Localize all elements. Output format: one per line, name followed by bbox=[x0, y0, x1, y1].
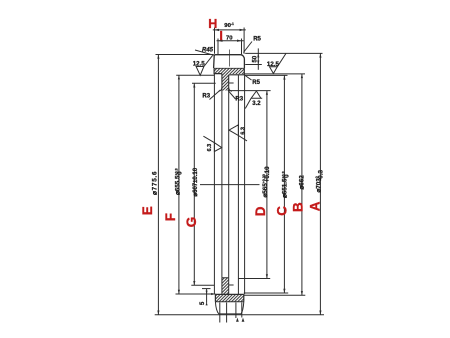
svg-text:50: 50 bbox=[252, 55, 258, 62]
dim 50 vertical bbox=[257, 48, 259, 69]
dim H ext right bbox=[243, 28, 245, 54]
svg-text:R3: R3 bbox=[202, 93, 210, 99]
svg-text:3.2: 3.2 bbox=[252, 101, 261, 107]
svg-text:R5: R5 bbox=[252, 80, 260, 86]
leader R3 left bbox=[210, 90, 221, 100]
svg-text:D: D bbox=[253, 206, 268, 216]
5 dim arrows bbox=[206, 291, 208, 295]
dim D bottom tick bbox=[238, 278, 270, 280]
H arrows bbox=[215, 29, 220, 31]
symbol 12.5 left triangle bbox=[196, 55, 213, 75]
svg-text:6.3: 6.3 bbox=[207, 144, 213, 152]
bottom bulb bbox=[215, 302, 243, 314]
tiny bottom arrows bbox=[236, 318, 239, 322]
dim B bottom tick bbox=[244, 294, 305, 296]
dim B top tick bbox=[245, 73, 306, 75]
dim D top tick bbox=[229, 90, 271, 92]
dim E bottom line bbox=[155, 314, 324, 316]
stem top edges bbox=[221, 74, 223, 91]
leader R3 right bbox=[228, 90, 236, 99]
svg-text:70: 70 bbox=[226, 35, 233, 41]
svg-text:12.5: 12.5 bbox=[193, 61, 206, 68]
dim I ext left bbox=[217, 39, 219, 55]
arrowheads bbox=[157, 29, 321, 322]
bottom stem piece hatched bbox=[222, 278, 229, 295]
dim H line bbox=[213, 29, 246, 31]
dim D vertical bbox=[266, 91, 268, 279]
svg-text:6.3: 6.3 bbox=[240, 127, 246, 135]
G arrows bbox=[193, 83, 195, 87]
svg-text:⌀565+0.30+0.10: ⌀565+0.30+0.10 bbox=[262, 166, 271, 198]
dim E vertical bbox=[157, 55, 159, 315]
symbol 12.5 right triangle bbox=[270, 53, 287, 73]
below-part extension lines bbox=[219, 303, 221, 323]
bottom stem tick bbox=[229, 284, 234, 286]
dim G vertical bbox=[193, 83, 195, 285]
symbol 3.2 bbox=[245, 91, 262, 109]
F bottom right arrow bbox=[211, 293, 215, 295]
svg-text:E: E bbox=[140, 206, 155, 215]
svg-text:⌀7030-0.3: ⌀7030-0.3 bbox=[315, 169, 324, 192]
dim F top tick bbox=[176, 74, 214, 76]
mid vertical L4 bbox=[237, 75, 239, 294]
I arrows bbox=[218, 40, 223, 42]
dim B vertical bbox=[301, 74, 303, 295]
bottom flange hatched bbox=[215, 294, 243, 301]
svg-text:90-1: 90-1 bbox=[224, 22, 234, 29]
dim 5 vertical bbox=[206, 289, 208, 303]
dim A top tick bbox=[245, 52, 322, 54]
C arrows bbox=[283, 75, 285, 79]
svg-text:A: A bbox=[308, 201, 323, 211]
leader R45 bbox=[195, 50, 214, 55]
svg-text:5: 5 bbox=[200, 301, 206, 305]
band outline bbox=[214, 68, 244, 75]
E arrows bbox=[157, 55, 159, 59]
leader R5 right bbox=[245, 75, 252, 80]
svg-text:C: C bbox=[275, 206, 290, 216]
dim G bottom line bbox=[191, 284, 214, 286]
svg-text:I: I bbox=[219, 29, 222, 43]
B arrows bbox=[301, 74, 303, 78]
dim C vertical bbox=[283, 75, 285, 293]
dim C top tick bbox=[245, 74, 288, 76]
D arrows bbox=[266, 91, 268, 95]
mid vertical L3 bbox=[228, 91, 230, 278]
svg-text:⌀607±0.10: ⌀607±0.10 bbox=[193, 167, 199, 196]
svg-text:⌀655.5+0.30: ⌀655.5+0.30 bbox=[174, 168, 183, 195]
dim I ext right bbox=[241, 39, 243, 55]
dim F bottom line bbox=[176, 293, 216, 295]
bottom flange outline bbox=[215, 294, 243, 301]
part head top surface bbox=[214, 55, 245, 68]
svg-text:R5: R5 bbox=[253, 37, 261, 43]
svg-text:G: G bbox=[184, 217, 199, 228]
symbol 6.3 no2 triangle bbox=[229, 125, 247, 141]
svg-text:⌀662: ⌀662 bbox=[298, 175, 305, 190]
svg-text:R45: R45 bbox=[202, 48, 214, 54]
centerline tick top bbox=[228, 50, 230, 67]
svg-text:B: B bbox=[291, 202, 306, 212]
svg-text:H: H bbox=[208, 17, 217, 31]
svg-text:R3: R3 bbox=[235, 96, 243, 102]
dim F vertical bbox=[178, 75, 180, 294]
svg-text:12.5: 12.5 bbox=[267, 61, 280, 68]
symbol 6.3 no1 triangle bbox=[203, 136, 221, 151]
dim A vertical bbox=[319, 53, 321, 314]
top flange hatch band bbox=[214, 68, 244, 74]
mid vertical L1 bbox=[213, 74, 215, 294]
mid horizontal line bbox=[200, 184, 260, 186]
dim I line bbox=[217, 40, 244, 42]
leader R5 top bbox=[243, 42, 252, 53]
dim G top tick bbox=[192, 82, 216, 84]
dim H ext left bbox=[214, 28, 216, 54]
F arrows bbox=[178, 75, 180, 79]
stem fillets bbox=[219, 88, 232, 92]
dim 5 crossbar bbox=[202, 288, 211, 290]
dim C bottom tick bbox=[244, 292, 288, 294]
A arrows bbox=[319, 53, 321, 57]
band top boundary bbox=[214, 67, 244, 69]
svg-text:⌀775.6: ⌀775.6 bbox=[152, 171, 159, 195]
stem top piece hatched bbox=[222, 74, 229, 91]
bottom stem outline bbox=[222, 278, 229, 295]
svg-text:F: F bbox=[163, 213, 178, 221]
dim E top tick bbox=[156, 54, 214, 56]
50 arrows bbox=[257, 53, 259, 57]
mid vertical L5 bbox=[244, 75, 246, 294]
mid vertical L2 bbox=[221, 91, 223, 278]
svg-text:⌀651.5+0.30: ⌀651.5+0.30 bbox=[281, 171, 290, 198]
stem tick upper bbox=[229, 82, 234, 84]
